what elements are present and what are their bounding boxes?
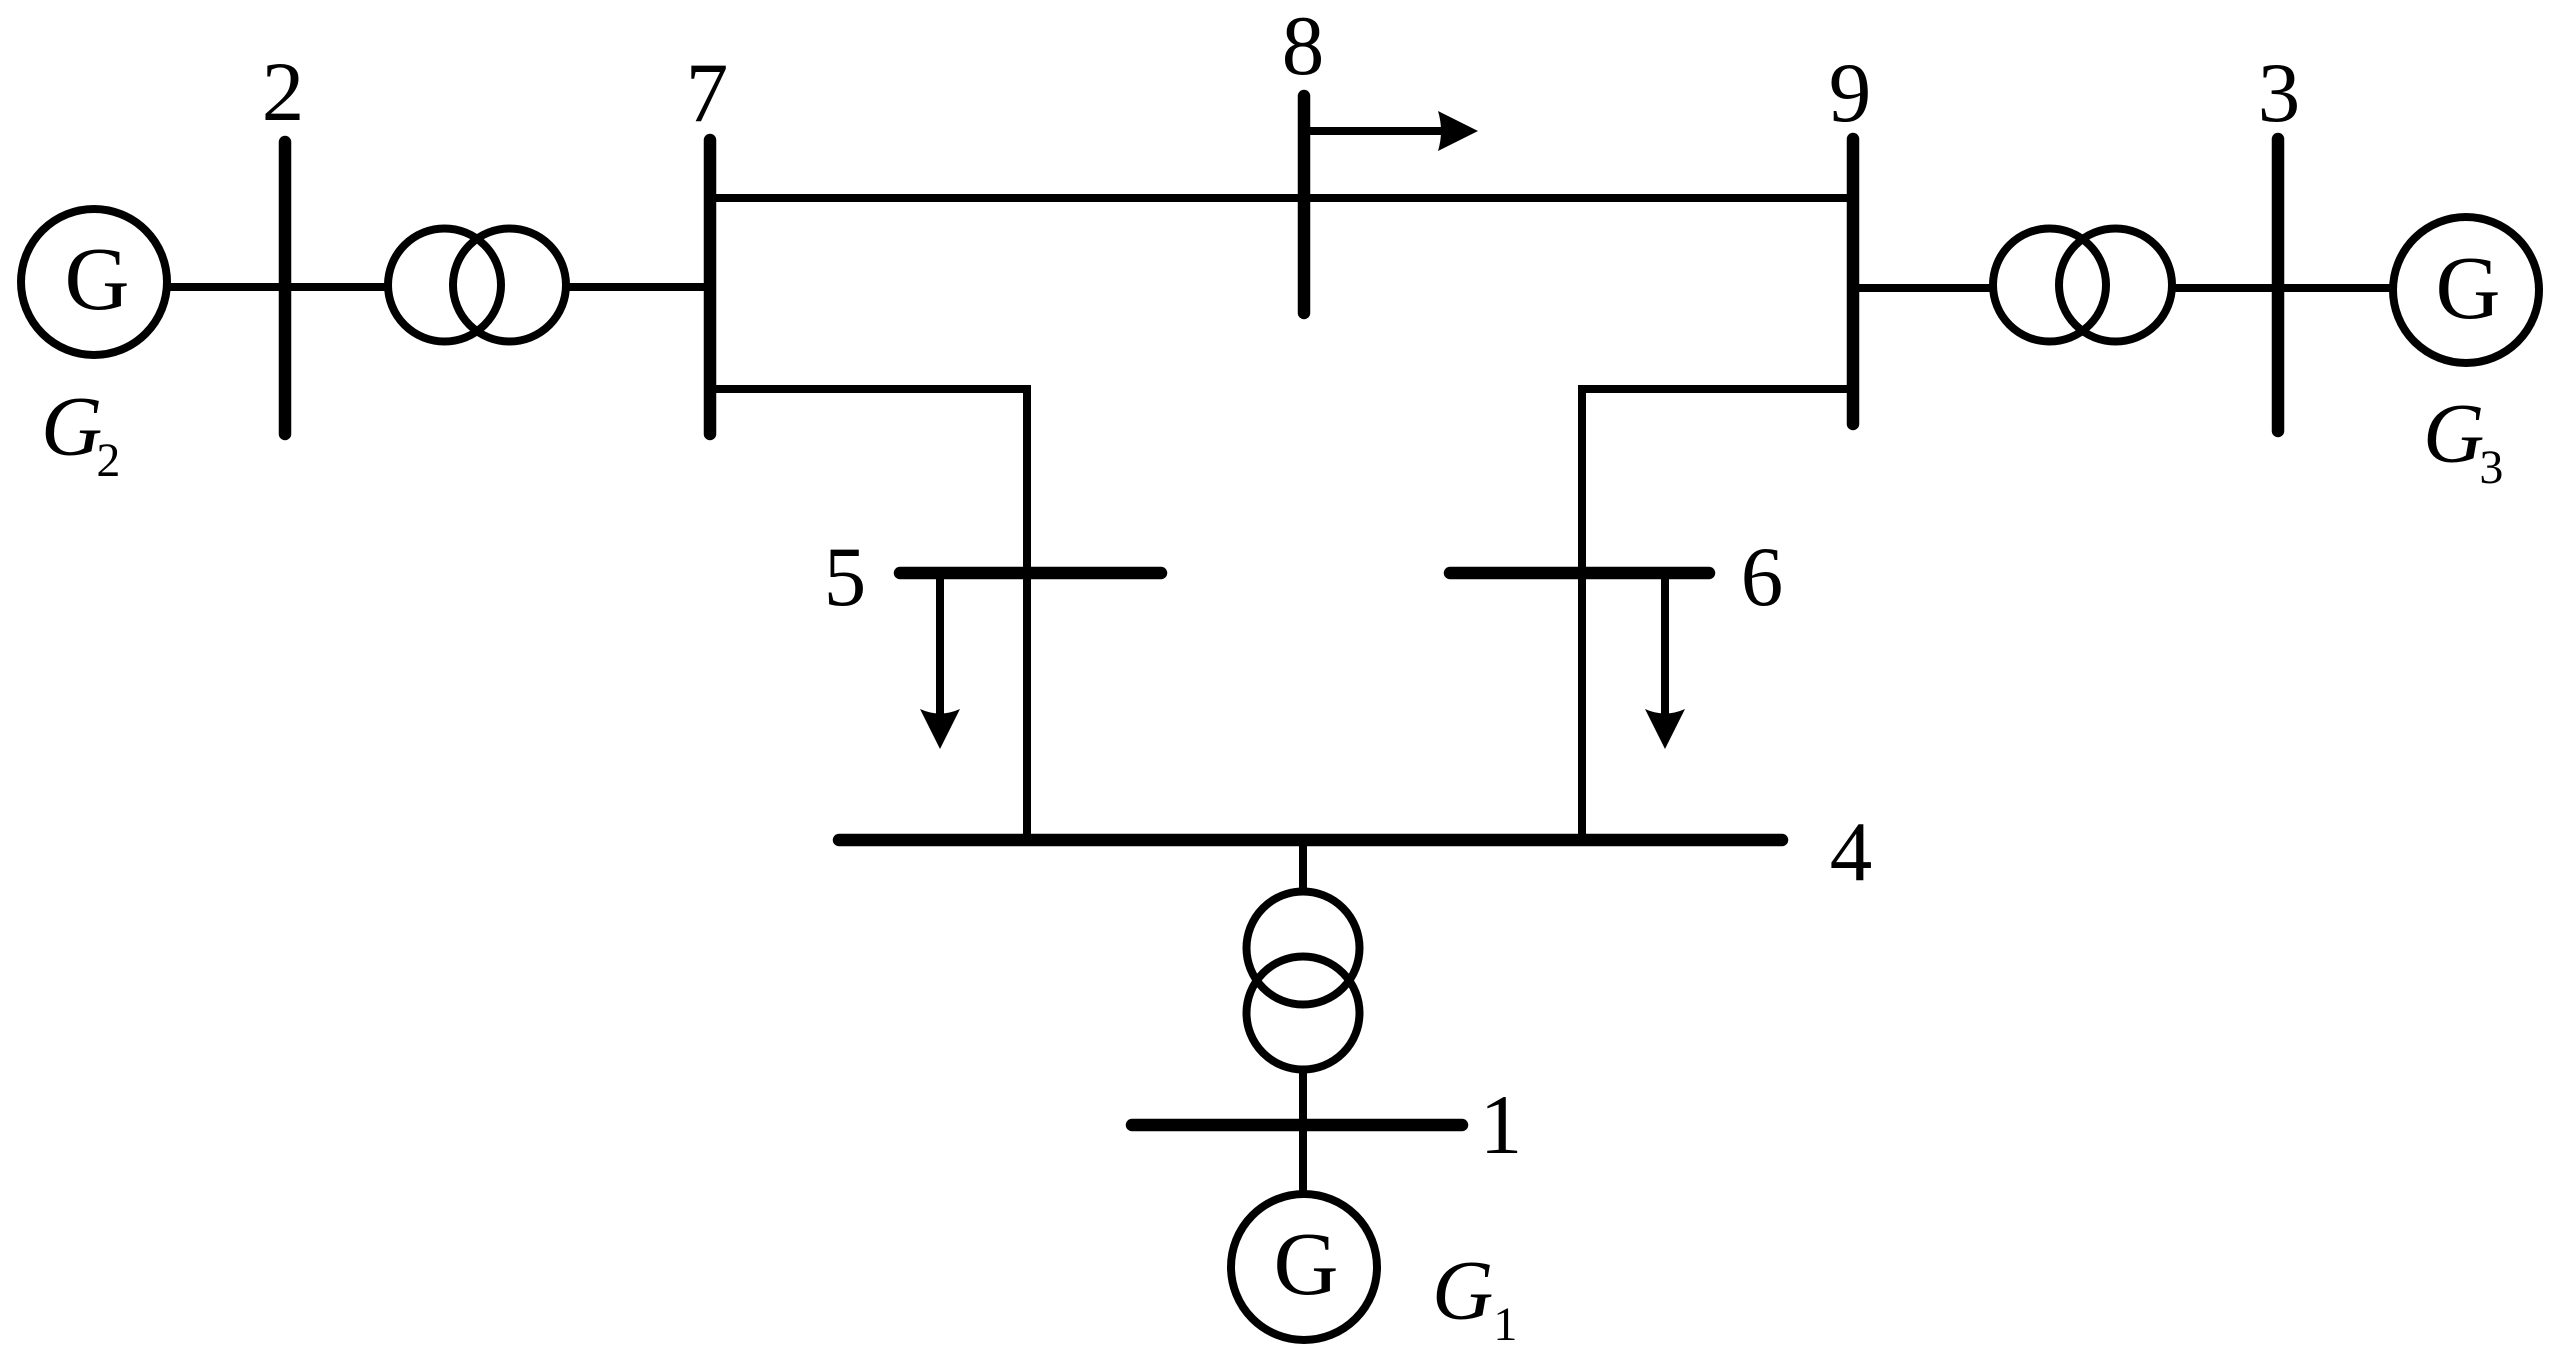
wire bus 7 to bus 9 (line 7-8-9) [710, 194, 1853, 202]
svg-text:G: G [1274, 1215, 1339, 1314]
svg-text:6: 6 [1741, 530, 1784, 624]
generator G2 circle [21, 209, 167, 355]
svg-text:G: G [2436, 239, 2501, 338]
bus 8 [1298, 96, 1311, 313]
svg-text:8: 8 [1282, 0, 1325, 93]
load arrow at bus 8 [1304, 111, 1478, 151]
bus 2 [279, 142, 292, 434]
bus 4 [839, 834, 1782, 847]
bus 5 [900, 567, 1161, 580]
bus 6 [1450, 567, 1709, 580]
svg-text:3: 3 [2258, 46, 2301, 140]
transformer T1 (bus4-bus1) [1247, 892, 1360, 1070]
transformer T2 (bus2-bus7) [388, 229, 566, 342]
wire bus 9 to G3 [1853, 284, 2466, 292]
transformer T3 (bus9-bus3) [1993, 229, 2172, 342]
bus 7 [704, 140, 717, 434]
wire bus 7 to bus 4 via corner (line 7-5-4) [710, 389, 1027, 840]
svg-text:5: 5 [824, 530, 867, 624]
wire bus 9 to bus 4 via corner (line 9-6-4) [1582, 389, 1853, 840]
generator G1 circle [1231, 1194, 1377, 1340]
svg-text:1: 1 [1480, 1078, 1523, 1172]
bus 1 [1132, 1119, 1462, 1132]
svg-text:4: 4 [1830, 805, 1873, 899]
svg-text:7: 7 [686, 46, 729, 140]
svg-text:G: G [65, 230, 130, 329]
svg-text:2: 2 [262, 45, 305, 139]
load arrow at bus 6 [1645, 573, 1685, 749]
generator G3 circle [2393, 217, 2539, 363]
load arrow at bus 5 [920, 573, 960, 749]
bus 3 [2272, 139, 2285, 431]
wire bus 4 to G1 [1299, 840, 1307, 1196]
bus 9 [1847, 139, 1860, 424]
wire G2 to bus 7 [94, 283, 710, 291]
svg-text:9: 9 [1829, 46, 1872, 140]
